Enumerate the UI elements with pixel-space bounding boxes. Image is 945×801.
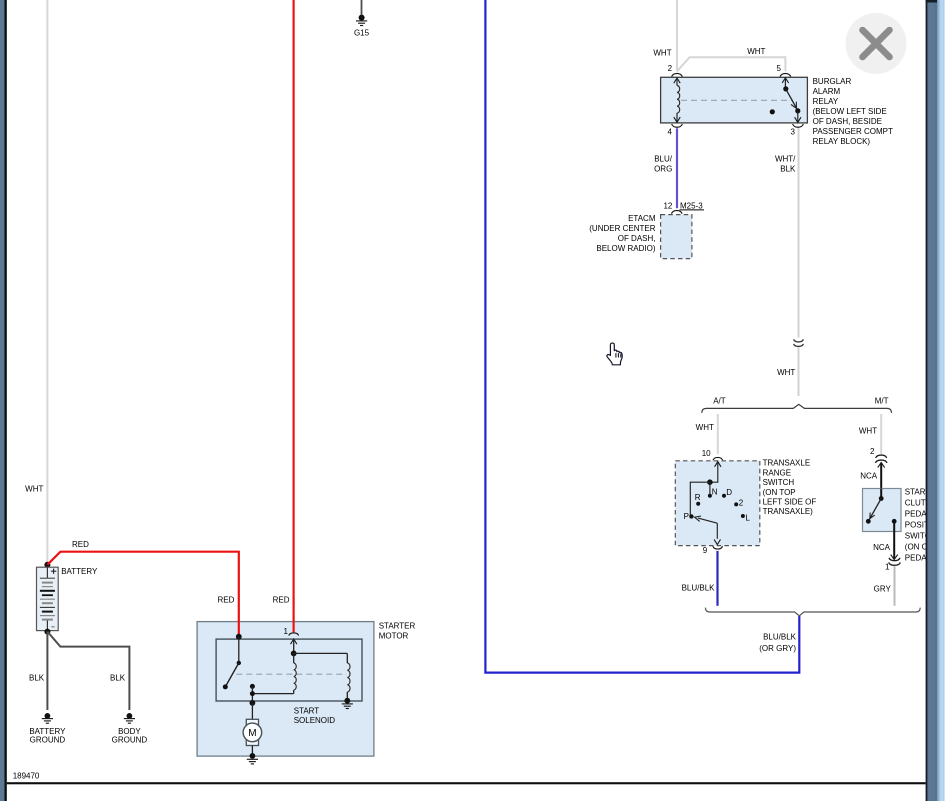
wire WHT M/T branch xyxy=(880,414,882,454)
wire BLU/BLK (OR GRY) long run xyxy=(485,0,799,673)
svg-text:GRY: GRY xyxy=(874,584,892,593)
wire GRY xyxy=(894,566,896,606)
wire to hold-in winding xyxy=(294,652,348,654)
starter solenoid inner box xyxy=(216,639,362,701)
svg-text:N: N xyxy=(712,488,718,497)
node winding return junction xyxy=(250,691,255,696)
clutch switch internals xyxy=(866,489,897,524)
wire RED from ignition to starter solenoid pin 1 xyxy=(293,0,295,632)
svg-text:(ON TOP: (ON TOP xyxy=(763,488,796,497)
mouse cursor xyxy=(607,343,622,365)
svg-text:M/T: M/T xyxy=(875,397,889,406)
svg-text:BELOW RADIO): BELOW RADIO) xyxy=(596,244,655,253)
relay switch xyxy=(770,78,801,123)
svg-text:BLK: BLK xyxy=(110,673,126,682)
svg-text:WHT: WHT xyxy=(653,48,671,57)
svg-text:RED: RED xyxy=(72,540,89,549)
contact D xyxy=(722,494,726,498)
svg-text:MOTOR: MOTOR xyxy=(379,631,409,640)
svg-text:9: 9 xyxy=(703,546,708,555)
solenoid pull-in winding xyxy=(294,653,297,693)
wire RED inside starter box to pin 1 xyxy=(293,621,295,633)
page left margin strip xyxy=(0,0,5,801)
svg-text:D: D xyxy=(726,488,732,497)
svg-text:GROUND: GROUND xyxy=(112,736,148,745)
wire to ground G15 xyxy=(361,0,363,15)
inline connector clutch switch pin 2 xyxy=(875,455,887,463)
wire break continuation symbol xyxy=(794,339,804,346)
contact P xyxy=(689,514,693,518)
svg-text:PASSENGER COMPT: PASSENGER COMPT xyxy=(813,127,893,136)
scrollbar top cap xyxy=(926,0,937,3)
solenoid hold-in winding xyxy=(347,653,350,700)
svg-text:2: 2 xyxy=(739,498,744,507)
contact L xyxy=(741,514,745,518)
ground starter motor xyxy=(247,753,258,764)
label ETACM xyxy=(589,214,656,253)
svg-text:M25-3: M25-3 xyxy=(680,201,703,210)
svg-text:(UNDER CENTER: (UNDER CENTER xyxy=(589,224,655,233)
svg-text:BLU/: BLU/ xyxy=(654,154,673,163)
pin 9 xyxy=(713,546,723,549)
svg-text:10: 10 xyxy=(702,449,711,458)
ground solenoid winding xyxy=(342,698,353,709)
connector M25-3 xyxy=(680,201,705,210)
svg-text:1: 1 xyxy=(284,627,289,636)
contact R xyxy=(696,502,700,506)
wire WHT A/T branch xyxy=(717,414,719,454)
svg-text:START: START xyxy=(294,706,320,715)
node inner box exit xyxy=(250,700,256,706)
svg-text:SOLENOID: SOLENOID xyxy=(294,716,336,725)
svg-text:2: 2 xyxy=(668,64,673,73)
svg-text:ALARM: ALARM xyxy=(813,87,841,96)
page bottom border xyxy=(7,782,926,784)
motor M1 xyxy=(243,719,262,745)
svg-text:WHT/: WHT/ xyxy=(775,154,796,163)
svg-text:WHT: WHT xyxy=(747,47,765,56)
merge brace BLU/BLK + GRY xyxy=(705,608,920,616)
split brace A/T M/T xyxy=(702,404,892,413)
svg-text:STARTER: STARTER xyxy=(379,621,416,630)
svg-text:2: 2 xyxy=(870,447,875,456)
svg-text:WHT: WHT xyxy=(777,368,795,377)
svg-text:SWITCH: SWITCH xyxy=(763,478,795,487)
wire WHT/BLK relay pin 3 down xyxy=(798,128,800,337)
svg-text:NCA: NCA xyxy=(860,472,878,481)
svg-text:G15: G15 xyxy=(354,29,370,38)
dashed link coil to contacts xyxy=(681,99,793,101)
contact N xyxy=(708,494,712,498)
scrollbar xyxy=(926,0,945,801)
wire NCA clutch switch pin 1 xyxy=(891,521,898,559)
svg-text:P: P xyxy=(684,512,689,521)
svg-text:4: 4 xyxy=(668,127,673,136)
svg-text:M: M xyxy=(248,728,256,739)
wire winding return xyxy=(252,694,293,703)
close button xyxy=(846,13,907,74)
wire RED battery to starter motor xyxy=(47,552,238,637)
relay N.O. contact xyxy=(770,109,775,114)
wire contact to motor xyxy=(251,686,253,693)
wire to motor xyxy=(251,703,253,720)
wire WHT to relay pin 2 xyxy=(676,0,678,71)
svg-text:R: R xyxy=(695,493,701,502)
starter motor box xyxy=(197,622,374,757)
svg-text:BLU/BLK: BLU/BLK xyxy=(682,584,716,593)
svg-text:WHT: WHT xyxy=(25,485,43,494)
ETACM box xyxy=(661,215,692,259)
battery xyxy=(37,567,59,631)
svg-text:BLK: BLK xyxy=(29,673,45,682)
svg-text:GROUND: GROUND xyxy=(30,736,66,745)
wire BLK to body ground xyxy=(47,632,129,710)
svg-text:ETACM: ETACM xyxy=(628,214,656,223)
svg-text:3: 3 xyxy=(790,127,795,136)
svg-text:LEFT SIDE OF: LEFT SIDE OF xyxy=(763,498,817,507)
node solenoid contact xyxy=(250,684,255,689)
svg-text:TRANSAXLE): TRANSAXLE) xyxy=(763,507,814,516)
svg-text:1: 1 xyxy=(885,562,890,571)
node battery negative junction xyxy=(44,629,50,635)
svg-text:A/T: A/T xyxy=(713,397,726,406)
wire BLU/ORG relay pin 4 to ETACM xyxy=(676,128,678,208)
svg-text:L: L xyxy=(745,514,750,523)
svg-text:WHT: WHT xyxy=(859,426,877,435)
relay box (burglar alarm relay) xyxy=(661,77,808,123)
label burglar alarm relay xyxy=(813,77,893,146)
contact 2 xyxy=(734,502,738,506)
svg-text:189470: 189470 xyxy=(13,772,40,781)
ground G15 xyxy=(356,15,367,26)
svg-text:BLK: BLK xyxy=(780,165,796,174)
svg-text:(BELOW LEFT SIDE: (BELOW LEFT SIDE xyxy=(813,107,887,116)
solenoid pin 1 lead xyxy=(291,639,297,653)
node battery positive junction xyxy=(44,562,50,568)
svg-text:ORG: ORG xyxy=(654,165,672,174)
svg-text:TRANSAXLE: TRANSAXLE xyxy=(763,459,811,468)
node solenoid coil junction xyxy=(291,651,297,657)
relay coil xyxy=(674,78,680,122)
svg-text:OF DASH, BESIDE: OF DASH, BESIDE xyxy=(813,117,882,126)
node red feed junction xyxy=(236,634,242,640)
inline connector clutch switch pin 1 xyxy=(889,558,901,565)
wire WHT battery feed xyxy=(46,0,48,565)
svg-text:RED: RED xyxy=(218,596,235,605)
label start clutch pedal position switch xyxy=(905,487,945,562)
svg-text:NCA: NCA xyxy=(873,543,891,552)
transaxle range switch box xyxy=(675,461,760,546)
pin 3 xyxy=(793,124,804,127)
svg-text:RELAY BLOCK): RELAY BLOCK) xyxy=(813,137,871,146)
svg-text:BLU/BLK: BLU/BLK xyxy=(763,633,797,642)
switch arm xyxy=(698,518,717,523)
wire RED inside starter box xyxy=(238,621,240,637)
pin 4 xyxy=(672,124,683,127)
transaxle range switch internals xyxy=(684,462,751,545)
page left border xyxy=(5,0,7,801)
svg-text:(OR GRY): (OR GRY) xyxy=(759,644,796,653)
wire BLU/BLK transaxle pin 9 down xyxy=(716,551,718,606)
svg-text:WHT: WHT xyxy=(696,423,714,432)
ground BATTERY GROUND xyxy=(42,713,53,723)
svg-text:RANGE: RANGE xyxy=(763,468,791,477)
label transaxle range switch xyxy=(763,459,817,517)
wire WHT continues xyxy=(798,348,800,397)
svg-text:5: 5 xyxy=(777,64,782,73)
svg-text:RED: RED xyxy=(273,596,290,605)
wire motor to ground xyxy=(251,746,253,755)
dashed link solenoid xyxy=(236,673,346,675)
svg-text:BURGLAR: BURGLAR xyxy=(813,77,852,86)
svg-text:12: 12 xyxy=(663,201,672,210)
wire NCA to clutch switch xyxy=(878,463,885,499)
svg-text:BATTERY: BATTERY xyxy=(61,567,98,576)
svg-text:RELAY: RELAY xyxy=(813,97,839,106)
solenoid switch xyxy=(223,637,241,690)
ground BODY GROUND xyxy=(124,713,135,723)
wire WHT branch to relay pin 5 xyxy=(677,57,785,71)
start clutch pedal position switch box xyxy=(863,489,902,532)
wire BLK to battery ground xyxy=(46,632,48,710)
svg-text:OF DASH,: OF DASH, xyxy=(618,234,656,243)
